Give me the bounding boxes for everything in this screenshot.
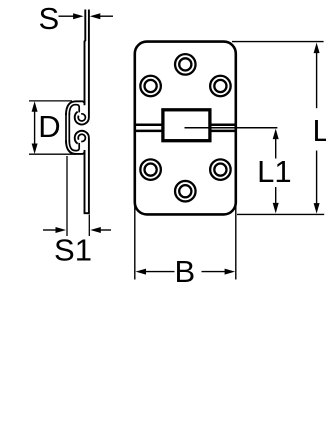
dimension L1 line upper <box>275 138 277 159</box>
dimension B line right segment <box>202 271 226 273</box>
dimension S left arrow <box>73 13 84 19</box>
svg-text:B: B <box>175 254 196 289</box>
hole top-left outer <box>140 76 161 97</box>
dimension B line left segment <box>145 271 175 273</box>
dimension S1 right extension line <box>88 215 90 237</box>
hole top-left inner <box>145 80 157 92</box>
leaf gap upper line right segment <box>210 123 235 126</box>
bottom curl inner ring <box>78 134 85 141</box>
svg-text:S1: S1 <box>54 232 92 267</box>
dimension S right arrow <box>90 13 101 19</box>
svg-text:L1: L1 <box>257 154 291 189</box>
hole bottom-center inner <box>179 185 191 197</box>
dimension L line upper <box>316 52 318 108</box>
dimension L line lower <box>316 151 318 205</box>
dimension L top extension line <box>232 41 324 43</box>
left leaf strip right line <box>68 113 70 142</box>
hinge leaf upper strip right line + top curl outer <box>75 10 89 125</box>
hinge leaf lower strip right line + bottom curl outer <box>75 131 89 213</box>
hole top-right outer <box>210 76 231 97</box>
hole top-center inner <box>179 58 191 70</box>
hinge plate outline (front view) <box>135 42 236 215</box>
dimension S1 left extension line <box>66 156 68 236</box>
svg-text:L: L <box>313 113 326 148</box>
dimension B left arrow <box>136 269 147 275</box>
dimension D line <box>34 110 36 145</box>
dimension D bottom extension line <box>29 153 76 155</box>
dimension B right extension line <box>235 203 237 280</box>
left leaf top bend outer <box>66 101 85 115</box>
lower strip end cap <box>84 212 90 214</box>
svg-text:S: S <box>38 1 59 36</box>
dimension L bottom extension line <box>237 213 324 215</box>
hinge leaf lower strip left line <box>84 150 86 213</box>
dimension D down arrow <box>32 144 38 155</box>
left leaf strip left line <box>65 113 67 142</box>
hole bottom-left inner <box>145 164 157 176</box>
dimension D up arrow <box>32 101 38 112</box>
hinge leaf upper strip left line <box>84 10 87 106</box>
leaf gap lower line right segment <box>210 130 235 133</box>
dimension L up arrow <box>314 43 320 54</box>
dimension B left extension line <box>134 203 136 280</box>
top curl inner ring <box>78 114 85 121</box>
leaf gap upper line left segment <box>136 123 163 126</box>
dimension S1 left arrow <box>56 227 67 233</box>
svg-text:D: D <box>38 109 60 144</box>
knuckle rectangle <box>163 110 210 141</box>
hole bottom-right outer <box>210 159 231 180</box>
hole bottom-right inner <box>214 164 226 176</box>
hole top-right inner <box>214 80 226 92</box>
hole bottom-left outer <box>140 159 161 180</box>
dimension L1 line lower <box>275 187 277 204</box>
dimension L1 down arrow <box>273 203 279 214</box>
dimension S1 right arrow <box>90 227 101 233</box>
left leaf bottom bend outer <box>66 140 85 154</box>
dimension B right arrow <box>225 269 236 275</box>
hole bottom-center outer <box>175 181 196 202</box>
hole top-center outer <box>175 54 196 75</box>
left leaf bottom bend inner <box>69 140 79 150</box>
leaf gap lower line left segment <box>136 130 163 133</box>
left leaf top bend inner <box>69 105 79 115</box>
pin center line <box>185 127 278 129</box>
dimension L1 up arrow <box>273 129 279 140</box>
dimension D top extension line <box>29 100 72 102</box>
dimension L down arrow <box>314 203 320 214</box>
